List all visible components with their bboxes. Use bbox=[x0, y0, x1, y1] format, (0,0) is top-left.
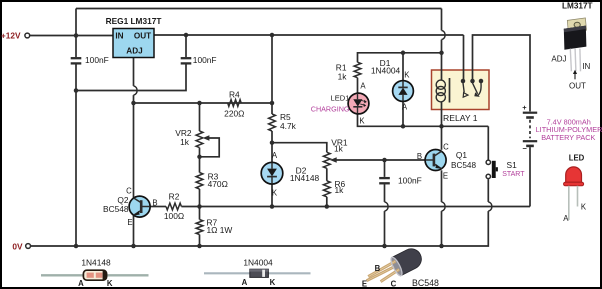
svg-text:LM317T: LM317T bbox=[562, 2, 592, 11]
svg-text:BATTERY PACK: BATTERY PACK bbox=[541, 133, 595, 142]
svg-text:1k: 1k bbox=[334, 143, 344, 153]
svg-text:S1: S1 bbox=[507, 160, 518, 170]
svg-text:A: A bbox=[563, 214, 569, 223]
svg-text:IN: IN bbox=[115, 32, 123, 41]
svg-text:R4: R4 bbox=[229, 89, 240, 99]
svg-text:LED1: LED1 bbox=[331, 94, 350, 103]
svg-text:K: K bbox=[359, 117, 365, 126]
svg-text:ADJ: ADJ bbox=[126, 47, 142, 56]
svg-text:E: E bbox=[443, 172, 448, 181]
svg-text:B: B bbox=[417, 152, 422, 161]
svg-text:−: − bbox=[523, 144, 528, 153]
svg-text:K: K bbox=[272, 189, 278, 198]
svg-text:K: K bbox=[270, 278, 276, 287]
svg-text:1k: 1k bbox=[338, 71, 348, 81]
svg-text:LED: LED bbox=[569, 154, 585, 163]
svg-text:1k: 1k bbox=[180, 137, 190, 147]
svg-text:Q1: Q1 bbox=[456, 150, 468, 160]
svg-text:K: K bbox=[404, 71, 410, 80]
svg-text:100nF: 100nF bbox=[193, 55, 217, 65]
svg-text:100Ω: 100Ω bbox=[164, 211, 184, 221]
svg-text:1N4004: 1N4004 bbox=[371, 66, 401, 76]
svg-text:B: B bbox=[375, 264, 381, 273]
svg-text:100nF: 100nF bbox=[398, 176, 422, 186]
svg-text:BC548: BC548 bbox=[103, 204, 129, 214]
svg-text:A: A bbox=[78, 279, 84, 288]
svg-text:1N4148: 1N4148 bbox=[81, 258, 111, 268]
svg-text:1N4148: 1N4148 bbox=[290, 173, 320, 183]
svg-text:K: K bbox=[107, 279, 113, 288]
svg-text:BC548: BC548 bbox=[451, 161, 476, 170]
svg-text:470Ω: 470Ω bbox=[208, 179, 228, 189]
svg-text:A: A bbox=[242, 278, 248, 287]
svg-text:1Ω 1W: 1Ω 1W bbox=[207, 225, 233, 235]
svg-text:C: C bbox=[391, 279, 397, 288]
svg-text:R2: R2 bbox=[169, 191, 180, 201]
svg-text:A: A bbox=[272, 151, 278, 160]
svg-text:C: C bbox=[126, 187, 132, 196]
svg-text:4.7k: 4.7k bbox=[280, 121, 297, 131]
svg-text:CHARGING: CHARGING bbox=[311, 104, 350, 113]
svg-text:+: + bbox=[522, 103, 527, 112]
svg-text:START: START bbox=[502, 171, 525, 178]
svg-text:REG1 LM317T: REG1 LM317T bbox=[106, 16, 162, 26]
svg-text:OUT: OUT bbox=[134, 32, 151, 41]
svg-text:RELAY 1: RELAY 1 bbox=[443, 113, 478, 123]
svg-text:A: A bbox=[402, 103, 408, 112]
svg-text:B: B bbox=[152, 198, 157, 207]
svg-text:A: A bbox=[360, 82, 366, 91]
svg-text:OUT: OUT bbox=[569, 82, 586, 91]
svg-text:K: K bbox=[581, 202, 587, 211]
svg-text:1k: 1k bbox=[335, 185, 345, 195]
svg-text:IN: IN bbox=[582, 62, 590, 71]
svg-text:1N4004: 1N4004 bbox=[243, 258, 273, 268]
svg-text:100nF: 100nF bbox=[85, 55, 109, 65]
svg-text:E: E bbox=[362, 279, 367, 288]
svg-text:0V: 0V bbox=[12, 242, 23, 252]
svg-text:ADJ: ADJ bbox=[551, 55, 566, 64]
svg-text:C: C bbox=[443, 143, 449, 152]
svg-text:BC548: BC548 bbox=[412, 278, 439, 288]
svg-text:220Ω: 220Ω bbox=[224, 108, 244, 118]
svg-text:E: E bbox=[127, 218, 132, 227]
svg-text:+12V: +12V bbox=[1, 30, 21, 40]
